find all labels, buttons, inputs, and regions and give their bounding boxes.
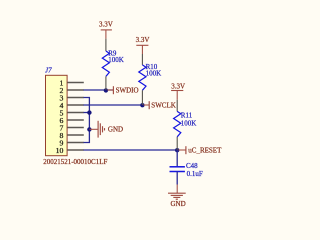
designator J7 [45, 66, 52, 74]
wire GND bus pins 3,9 [84, 98, 90, 143]
capacitor C48 [170, 162, 203, 178]
wire SWCLK pin4 to label [84, 104, 145, 106]
svg-text:100K: 100K [146, 70, 162, 78]
svg-text:uC_RESET: uC_RESET [188, 147, 222, 155]
net label uC_RESET [178, 146, 222, 154]
pin 1 [59, 79, 83, 88]
power 3.3V for R11 [171, 82, 185, 99]
node GND tap junction [87, 127, 91, 131]
ground GND bottom symbol [168, 185, 186, 208]
svg-text:C48: C48 [186, 162, 198, 170]
node pin5 junction [87, 110, 91, 114]
wire SWDIO pin2 to label [84, 89, 114, 91]
power 3.3V for R9 [99, 21, 113, 39]
pin 2 [59, 86, 83, 95]
svg-text:3.3V: 3.3V [99, 21, 113, 29]
svg-text:J7: J7 [45, 66, 52, 74]
svg-text:3.3V: 3.3V [136, 36, 150, 44]
wire C48 to GND [176, 172, 178, 185]
part number label [43, 158, 107, 166]
resistor R9 [102, 39, 123, 90]
svg-text:100K: 100K [108, 56, 124, 64]
svg-text:20021521-00010C1LF: 20021521-00010C1LF [43, 158, 107, 166]
svg-text:SWDIO: SWDIO [116, 87, 139, 95]
pin 10 [56, 146, 84, 155]
resistor R10 [139, 54, 161, 105]
power 3.3V for R10 [136, 36, 150, 54]
node SWDIO junction [104, 88, 108, 92]
pin 3 [59, 94, 83, 103]
svg-text:0.1uF: 0.1uF [187, 170, 203, 178]
net label SWCLK [144, 101, 176, 109]
ground GND side symbol [89, 121, 123, 138]
pin 8 [59, 131, 83, 140]
wire pin5 to GND bus [84, 112, 90, 114]
net label SWDIO [107, 86, 138, 94]
pin 6 [59, 116, 83, 125]
pin 7 [59, 124, 83, 133]
svg-text:GND: GND [171, 200, 186, 208]
svg-text:R11: R11 [181, 112, 193, 120]
svg-text:3.3V: 3.3V [171, 82, 185, 90]
node uC_RESET junction [175, 148, 179, 152]
svg-text:10: 10 [56, 146, 64, 155]
wire uC_RESET to C48 [176, 150, 178, 166]
pin 4 [59, 101, 83, 110]
pin 9 [59, 139, 83, 148]
wire uC_RESET pin10 to label [84, 149, 179, 151]
resistor R11 [174, 100, 197, 150]
svg-text:100K: 100K [181, 119, 197, 127]
pin 5 [59, 109, 83, 118]
svg-text:GND: GND [108, 126, 123, 134]
connector J7 body [46, 75, 68, 155]
node SWCLK junction [140, 103, 144, 107]
svg-text:SWCLK: SWCLK [151, 102, 176, 110]
